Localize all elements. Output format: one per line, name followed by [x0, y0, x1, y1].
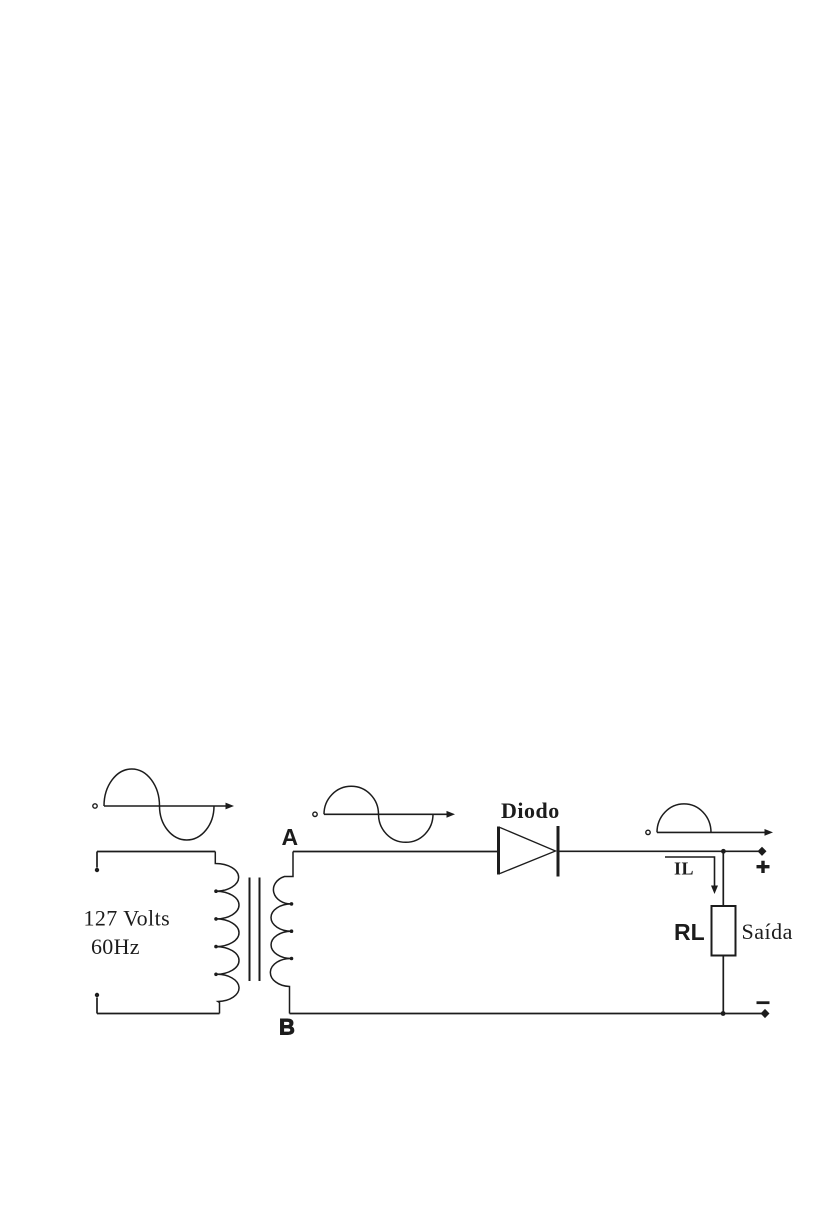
bottom output terminal diamond: [761, 1009, 770, 1018]
junction dot bottom: [721, 1011, 726, 1016]
primary bottom terminal stub: [96, 998, 98, 1014]
transformer secondary winding L2: [270, 852, 293, 1014]
wire A to diode: [293, 851, 498, 853]
waveform axis arrow: [104, 805, 229, 807]
resistor RL: [712, 906, 736, 956]
svg-text:RL: RL: [674, 919, 705, 945]
wire diode to + node: [559, 850, 760, 852]
svg-text:IL: IL: [674, 859, 694, 879]
svg-text:127 Volts: 127 Volts: [84, 906, 171, 931]
diode D1: [499, 826, 559, 877]
top output terminal diamond: [758, 847, 767, 856]
wire junction to resistor: [722, 851, 724, 906]
waveform axis arrow: [324, 813, 450, 815]
sine curve: [324, 786, 433, 842]
primary top terminal stub: [96, 852, 98, 868]
node circle (secondary waveform origin): [313, 812, 317, 816]
input sine waveform symbol: [93, 769, 234, 840]
half-sine hump: [657, 804, 711, 833]
transformer primary winding L1: [215, 852, 239, 1014]
secondary sine waveform symbol: [313, 786, 455, 842]
node circle (output waveform origin): [646, 830, 650, 834]
transformer core: [249, 878, 251, 982]
minus sign: [757, 1001, 770, 1004]
waveform axis arrow: [657, 831, 768, 833]
svg-text:B: B: [279, 1015, 295, 1040]
primary top wire: [97, 851, 215, 853]
svg-text:60Hz: 60Hz: [91, 934, 140, 959]
triangle: [500, 828, 556, 874]
sine curve: [104, 769, 214, 840]
primary top terminal dot: [95, 868, 99, 872]
bottom wire: [290, 1013, 764, 1015]
svg-text:A: A: [282, 824, 299, 850]
secondary winding cusp dots: [290, 902, 294, 960]
anode bar: [497, 827, 500, 875]
primary bottom wire: [97, 1013, 220, 1015]
svg-text:Diodo: Diodo: [501, 798, 560, 823]
plus sign: [757, 861, 770, 873]
svg-text:Saída: Saída: [742, 919, 793, 944]
IL current arrow: [665, 857, 715, 888]
cathode bar: [557, 826, 560, 877]
wire resistor to bottom: [722, 956, 724, 1014]
primary bottom terminal dot: [95, 993, 99, 997]
node circle (input waveform origin): [93, 804, 97, 808]
primary winding cusp dots: [214, 889, 218, 976]
rectified output waveform symbol: [646, 804, 773, 836]
junction dot top: [721, 849, 726, 854]
